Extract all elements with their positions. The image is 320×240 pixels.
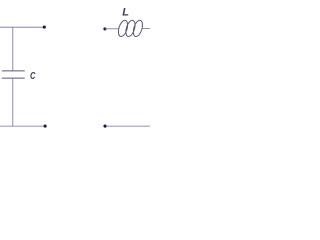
inductor L loop 2 bbox=[124, 19, 137, 37]
svg-text:L: L bbox=[122, 7, 129, 19]
capacitor C bottom plate bbox=[2, 77, 25, 79]
node top-right terminal bbox=[103, 27, 106, 30]
wire inductor right lead bbox=[142, 28, 150, 30]
wire bottom-right horizontal bbox=[105, 125, 150, 127]
wire inductor left lead bbox=[105, 28, 119, 30]
node bottom-left terminal bbox=[44, 125, 47, 128]
inductor L loop 1 bbox=[117, 19, 130, 37]
node top-left terminal bbox=[43, 26, 46, 29]
inductor L loop 3 bbox=[132, 19, 145, 37]
wire bottom-left horizontal bbox=[0, 125, 44, 127]
wire top-left horizontal bbox=[0, 26, 44, 28]
svg-text:C: C bbox=[30, 71, 36, 82]
node bottom-right terminal bbox=[103, 125, 106, 128]
wire left vertical lower bbox=[12, 78, 14, 126]
capacitor C top plate bbox=[2, 70, 25, 72]
wire left vertical upper bbox=[12, 27, 14, 71]
